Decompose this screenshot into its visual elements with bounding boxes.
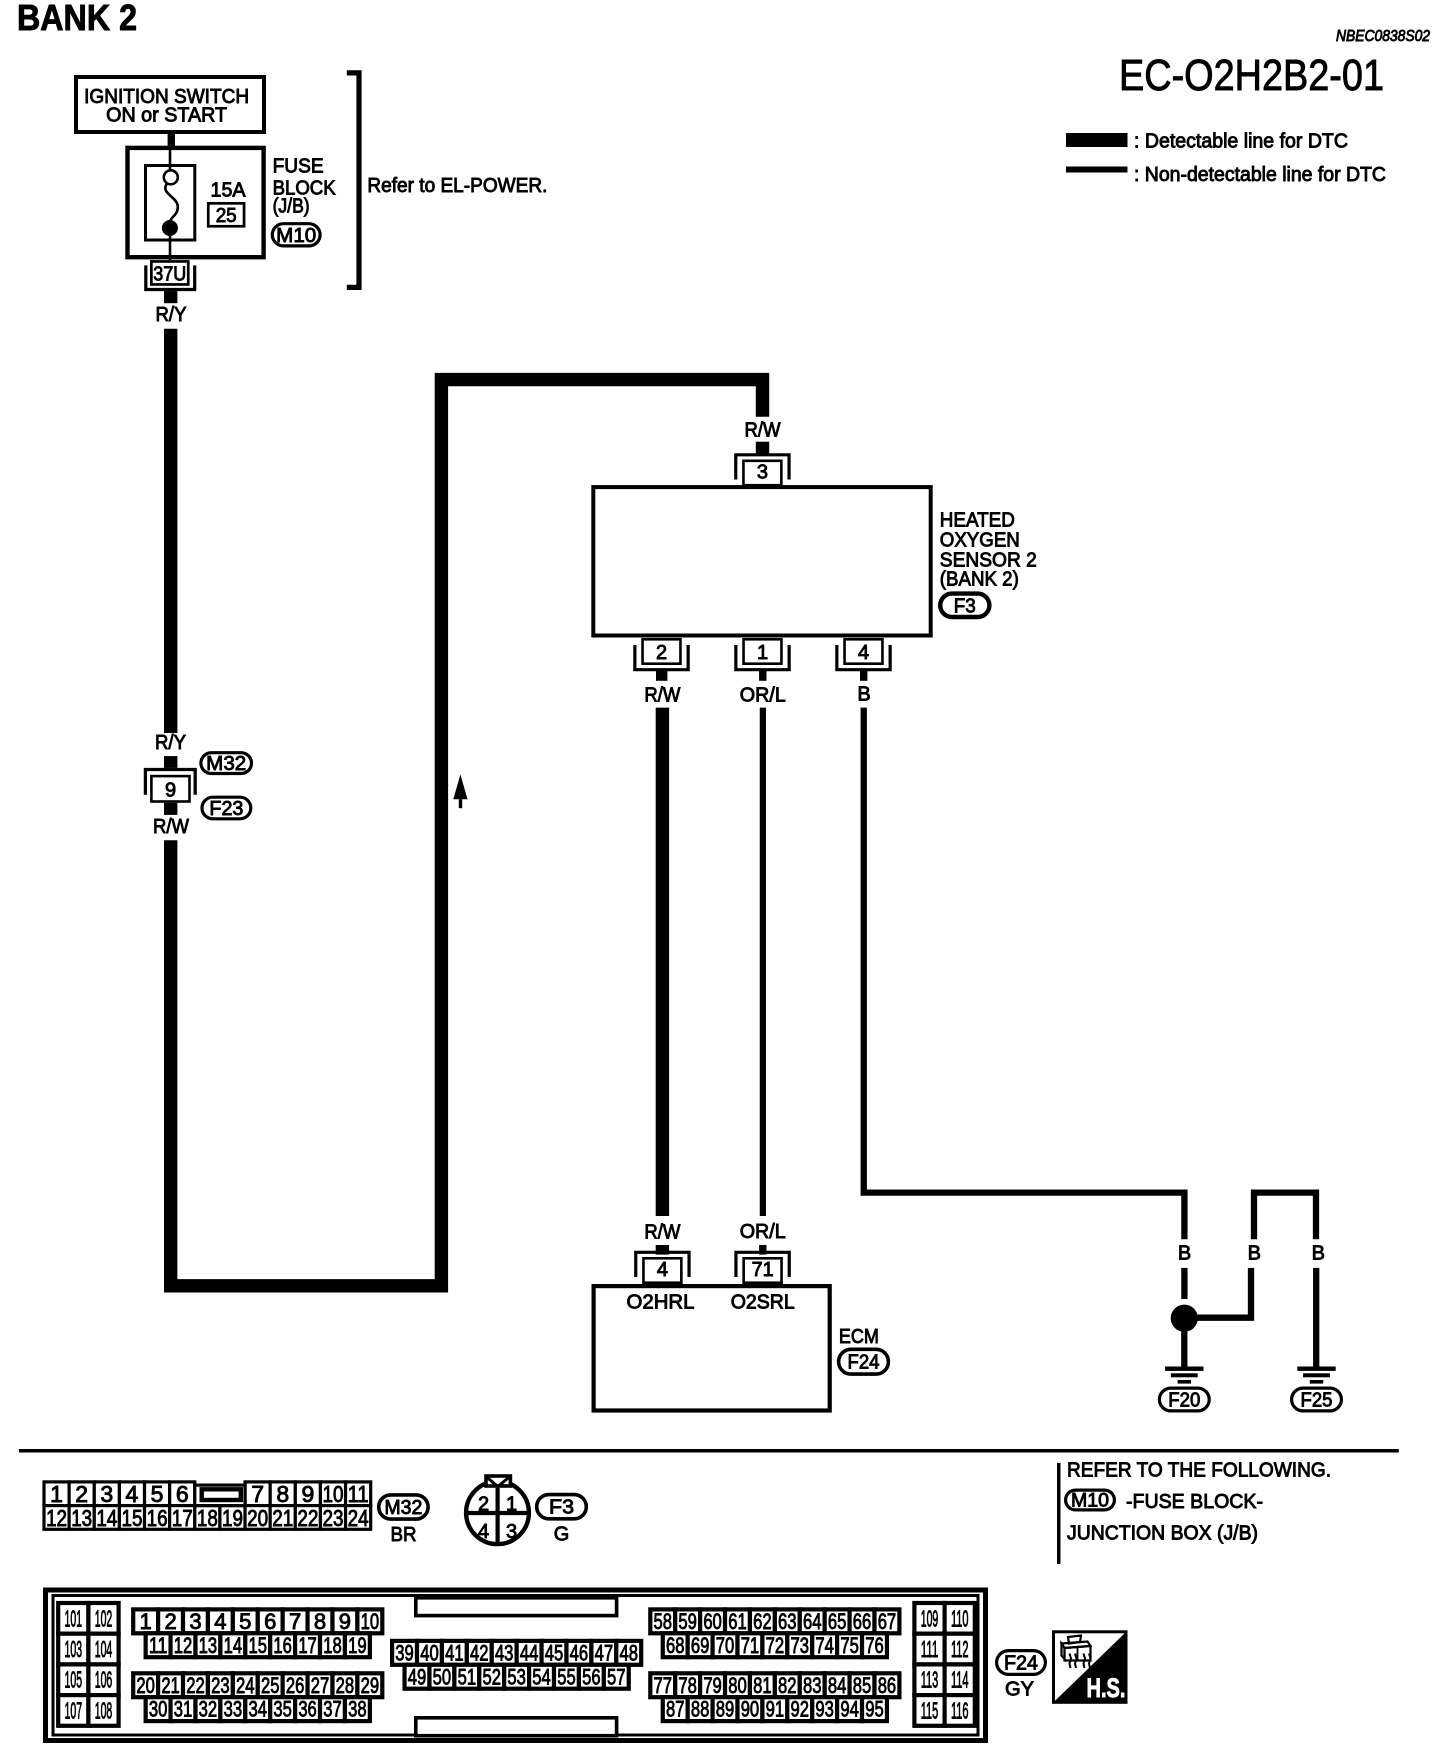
- svg-text:111: 111: [921, 1636, 939, 1662]
- svg-text:2: 2: [164, 1609, 176, 1634]
- svg-text:4: 4: [214, 1609, 226, 1634]
- svg-text:37U: 37U: [153, 263, 186, 285]
- svg-text:(J/B): (J/B): [273, 196, 310, 218]
- svg-text:3: 3: [506, 1521, 517, 1543]
- svg-text:1: 1: [140, 1609, 152, 1634]
- svg-text:93: 93: [815, 1697, 834, 1722]
- svg-text:46: 46: [570, 1640, 589, 1665]
- svg-text:ON or START: ON or START: [106, 105, 227, 127]
- svg-text:109: 109: [921, 1605, 939, 1631]
- ground symbol F20: [1165, 1367, 1203, 1371]
- svg-text:12: 12: [174, 1633, 193, 1658]
- svg-text:60: 60: [703, 1609, 722, 1634]
- ECM connector cells 1-19: [133, 1609, 158, 1633]
- ECM connector top notch: [416, 1598, 617, 1616]
- svg-text:26: 26: [286, 1673, 305, 1698]
- svg-text:6: 6: [264, 1609, 276, 1634]
- svg-text:15A: 15A: [211, 180, 247, 202]
- svg-text:108: 108: [95, 1697, 113, 1723]
- svg-text:70: 70: [716, 1633, 735, 1658]
- svg-text:69: 69: [691, 1633, 710, 1658]
- svg-text:61: 61: [728, 1609, 747, 1634]
- ECM connector cells 20-38: [133, 1673, 158, 1697]
- svg-text:4: 4: [478, 1521, 489, 1543]
- svg-text:48: 48: [619, 1640, 638, 1665]
- legend non-detectable line sample: [1066, 167, 1128, 173]
- ground symbol F25: [1297, 1367, 1335, 1371]
- svg-text:94: 94: [840, 1697, 859, 1722]
- svg-text:3: 3: [100, 1481, 113, 1507]
- svg-text:80: 80: [728, 1673, 747, 1698]
- svg-text:M32: M32: [206, 753, 246, 775]
- svg-text:75: 75: [840, 1633, 859, 1658]
- svg-text:13: 13: [71, 1505, 92, 1531]
- svg-text:1: 1: [506, 1494, 517, 1516]
- fuse number 25 box: [208, 203, 244, 226]
- svg-text:105: 105: [65, 1667, 83, 1693]
- connector view F3 round: [466, 1481, 529, 1544]
- svg-text:28: 28: [336, 1673, 355, 1698]
- H.S. harness side view logo: [1054, 1632, 1127, 1703]
- svg-text:65: 65: [828, 1609, 847, 1634]
- svg-text:56: 56: [582, 1664, 601, 1689]
- wire stub into ECM pin 4: [656, 1245, 669, 1255]
- wire stub ignition to fuse block: [168, 134, 175, 146]
- ECM box: [594, 1286, 830, 1410]
- svg-text:79: 79: [703, 1673, 722, 1698]
- ECM pin 4: [643, 1258, 681, 1282]
- svg-text:14: 14: [224, 1633, 243, 1658]
- svg-text:54: 54: [532, 1664, 551, 1689]
- ECM connector left column cells 101-108: [58, 1603, 88, 1634]
- svg-text:55: 55: [557, 1664, 576, 1689]
- svg-text:9: 9: [301, 1481, 314, 1507]
- svg-text:47: 47: [595, 1640, 614, 1665]
- svg-text:13: 13: [199, 1633, 218, 1658]
- svg-text:89: 89: [716, 1697, 735, 1722]
- svg-text:R/W: R/W: [153, 816, 189, 838]
- svg-text:7: 7: [251, 1481, 264, 1507]
- wire stub below connector 9: [164, 803, 177, 815]
- svg-text:2: 2: [656, 642, 667, 664]
- svg-text:106: 106: [95, 1667, 113, 1693]
- svg-text:1: 1: [50, 1481, 63, 1507]
- ECM pin 71: [744, 1258, 782, 1282]
- svg-text:20: 20: [136, 1673, 155, 1698]
- connector ref F24 oval: [839, 1349, 889, 1374]
- svg-text:B: B: [857, 684, 870, 706]
- svg-text:25: 25: [216, 205, 237, 227]
- svg-text:78: 78: [678, 1673, 697, 1698]
- svg-text:74: 74: [815, 1633, 834, 1658]
- sensor pin 3: [743, 461, 781, 485]
- svg-text:21: 21: [161, 1673, 180, 1698]
- svg-text:3: 3: [189, 1609, 201, 1634]
- svg-text:88: 88: [691, 1697, 710, 1722]
- fuse block M10 box: [128, 148, 264, 257]
- wire stub below sensor pin 2: [656, 670, 667, 681]
- svg-text:F25: F25: [1301, 1390, 1333, 1412]
- svg-text:4: 4: [126, 1481, 139, 1507]
- heated oxygen sensor 2 box: [593, 487, 930, 635]
- wire OR/L signal run down to ECM: [760, 708, 766, 1216]
- svg-text:19: 19: [222, 1505, 243, 1531]
- wire stub into ECM pin 71: [759, 1245, 766, 1255]
- svg-text:-FUSE BLOCK-: -FUSE BLOCK-: [1126, 1491, 1263, 1513]
- svg-text:67: 67: [878, 1609, 897, 1634]
- svg-text:REFER TO THE FOLLOWING.: REFER TO THE FOLLOWING.: [1067, 1460, 1331, 1482]
- svg-text:O2SRL: O2SRL: [731, 1292, 795, 1314]
- connector ref M10 oval: [272, 224, 320, 246]
- wire stub below 37U: [164, 291, 177, 303]
- svg-text:23: 23: [211, 1673, 230, 1698]
- svg-text:18: 18: [323, 1633, 342, 1658]
- svg-text:32: 32: [199, 1697, 218, 1722]
- svg-text:77: 77: [654, 1673, 673, 1698]
- svg-text:113: 113: [921, 1667, 939, 1693]
- svg-text:1: 1: [757, 642, 768, 664]
- svg-text:OXYGEN: OXYGEN: [940, 530, 1020, 552]
- svg-text:19: 19: [348, 1633, 367, 1658]
- wire stub below sensor pin 1: [759, 670, 766, 681]
- svg-text:9: 9: [339, 1609, 351, 1634]
- svg-text:R/Y: R/Y: [156, 304, 187, 326]
- svg-text:102: 102: [95, 1605, 113, 1631]
- wire B from label to junction: [1181, 1268, 1187, 1299]
- in-line connector 9 (M32/F23): [145, 770, 195, 795]
- ECM connector right column cells 109-116: [914, 1603, 944, 1634]
- svg-text:F20: F20: [1168, 1390, 1200, 1412]
- svg-text:90: 90: [741, 1697, 760, 1722]
- svg-text:53: 53: [507, 1664, 526, 1689]
- svg-text:84: 84: [828, 1673, 847, 1698]
- svg-text:41: 41: [445, 1640, 464, 1665]
- svg-text:17: 17: [172, 1505, 193, 1531]
- svg-text:35: 35: [273, 1697, 292, 1722]
- svg-text:87: 87: [666, 1697, 685, 1722]
- svg-text:101: 101: [65, 1605, 83, 1631]
- svg-text:66: 66: [853, 1609, 872, 1634]
- separator line above connector views: [19, 1449, 1399, 1453]
- svg-text:2: 2: [75, 1481, 88, 1507]
- ECM connector cells 58-76: [650, 1609, 675, 1633]
- svg-text:JUNCTION BOX (J/B): JUNCTION BOX (J/B): [1067, 1523, 1258, 1545]
- svg-text:22: 22: [186, 1673, 205, 1698]
- svg-text:18: 18: [197, 1505, 218, 1531]
- svg-text:EC-O2H2B2-01: EC-O2H2B2-01: [1119, 51, 1384, 100]
- svg-text:14: 14: [96, 1505, 117, 1531]
- svg-text:115: 115: [921, 1697, 939, 1723]
- svg-text:73: 73: [791, 1633, 810, 1658]
- connector ref F3 oval: [940, 594, 989, 617]
- svg-text:ECM: ECM: [839, 1326, 879, 1348]
- svg-text:21: 21: [272, 1505, 293, 1531]
- svg-text:71: 71: [741, 1633, 760, 1658]
- legend detectable line sample: [1066, 133, 1128, 147]
- sensor pin 2: [643, 639, 681, 663]
- svg-text:OR/L: OR/L: [740, 1221, 786, 1243]
- wire stub into pin 3: [756, 442, 769, 455]
- svg-text:38: 38: [348, 1697, 367, 1722]
- svg-text:H.S.: H.S.: [1087, 1673, 1126, 1703]
- svg-text:62: 62: [753, 1609, 772, 1634]
- svg-text:8: 8: [276, 1481, 289, 1507]
- svg-text:B: B: [1178, 1243, 1191, 1265]
- F3 cross dividers: [467, 1511, 529, 1515]
- connector view M32 24-pin grid: [44, 1482, 69, 1506]
- svg-text:103: 103: [65, 1636, 83, 1662]
- svg-text:R/W: R/W: [644, 685, 680, 707]
- wire R/Y upper segment: [164, 329, 177, 733]
- svg-text:16: 16: [273, 1633, 292, 1658]
- wire R/W main thick run: left down, bottom right, up, top right: [171, 380, 763, 1286]
- refer-to vertical rule: [1057, 1463, 1061, 1564]
- svg-text:15: 15: [249, 1633, 268, 1658]
- svg-text:72: 72: [766, 1633, 785, 1658]
- svg-text:51: 51: [458, 1664, 477, 1689]
- wire middle leg up and over to right leg: [1254, 1193, 1316, 1240]
- svg-text:OR/L: OR/L: [740, 685, 786, 707]
- svg-text:M10: M10: [276, 225, 316, 247]
- svg-text:37: 37: [323, 1697, 342, 1722]
- svg-text:9: 9: [165, 780, 176, 802]
- svg-text:R/W: R/W: [745, 420, 781, 442]
- svg-text:76: 76: [865, 1633, 884, 1658]
- H.S. logo connector icon: [1068, 1636, 1081, 1644]
- direction arrow on thick wire: [453, 775, 467, 800]
- svg-text:FUSE: FUSE: [273, 156, 324, 178]
- svg-text:6: 6: [176, 1481, 189, 1507]
- svg-text:92: 92: [791, 1697, 810, 1722]
- svg-text:5: 5: [239, 1609, 251, 1634]
- svg-text:23: 23: [322, 1505, 343, 1531]
- svg-text:G: G: [554, 1524, 570, 1546]
- svg-text:110: 110: [951, 1605, 969, 1631]
- svg-text:7: 7: [289, 1609, 301, 1634]
- connector 37U below fuse block: [151, 261, 188, 284]
- svg-text:12: 12: [46, 1505, 67, 1531]
- svg-text:R/W: R/W: [644, 1222, 680, 1244]
- connector ref M32 oval: [201, 753, 252, 774]
- svg-text:F24: F24: [848, 1352, 880, 1374]
- svg-text:116: 116: [951, 1697, 969, 1723]
- svg-text:57: 57: [607, 1664, 626, 1689]
- svg-text:58: 58: [654, 1609, 673, 1634]
- svg-text:BANK 2: BANK 2: [17, 0, 137, 38]
- svg-text:Refer to EL-POWER.: Refer to EL-POWER.: [367, 175, 547, 197]
- svg-text:10: 10: [361, 1609, 380, 1634]
- svg-text:39: 39: [395, 1640, 414, 1665]
- svg-text:: Detectable line for DTC: : Detectable line for DTC: [1134, 131, 1348, 153]
- sensor pin 4: [845, 639, 883, 663]
- svg-text:GY: GY: [1005, 1679, 1034, 1701]
- svg-text:91: 91: [766, 1697, 785, 1722]
- ECM connector bottom notch: [416, 1718, 617, 1736]
- svg-text:71: 71: [752, 1259, 774, 1281]
- svg-text:27: 27: [311, 1673, 330, 1698]
- svg-text:36: 36: [298, 1697, 317, 1722]
- wire stub into connector 9: [164, 756, 177, 768]
- wire right leg down to F25 ground: [1313, 1268, 1319, 1367]
- svg-text:4: 4: [858, 642, 869, 664]
- svg-text:42: 42: [470, 1640, 489, 1665]
- svg-text:R/Y: R/Y: [155, 732, 186, 754]
- svg-text:8: 8: [314, 1609, 326, 1634]
- svg-text:82: 82: [778, 1673, 797, 1698]
- svg-text:2: 2: [478, 1494, 489, 1516]
- ECM connector cells 77-95: [650, 1673, 675, 1697]
- wire bridge from junction to middle leg: [1196, 1268, 1251, 1318]
- sensor pin 1: [744, 639, 782, 663]
- svg-text:HEATED: HEATED: [940, 510, 1015, 532]
- svg-text:F24: F24: [1004, 1653, 1038, 1675]
- junction dot: [1171, 1305, 1198, 1332]
- svg-text:F3: F3: [549, 1497, 574, 1519]
- svg-text:15: 15: [121, 1505, 142, 1531]
- F3 keyway: [486, 1476, 510, 1486]
- svg-text:43: 43: [495, 1640, 514, 1665]
- svg-text:20: 20: [247, 1505, 268, 1531]
- svg-text:29: 29: [361, 1673, 380, 1698]
- ECM connector cells 39-57: [392, 1641, 417, 1665]
- svg-text:B: B: [1248, 1243, 1261, 1265]
- svg-text:31: 31: [174, 1697, 193, 1722]
- svg-text:25: 25: [261, 1673, 280, 1698]
- M32 keyway slot bar: [202, 1489, 241, 1500]
- wire junction to F20 ground: [1181, 1331, 1187, 1367]
- svg-text:45: 45: [545, 1640, 564, 1665]
- svg-text:44: 44: [520, 1640, 539, 1665]
- svg-text:5: 5: [151, 1481, 164, 1507]
- svg-text:52: 52: [482, 1664, 501, 1689]
- svg-text:16: 16: [147, 1505, 168, 1531]
- svg-text:95: 95: [865, 1697, 884, 1722]
- svg-text:49: 49: [408, 1664, 427, 1689]
- svg-text:11: 11: [348, 1481, 369, 1507]
- svg-text:104: 104: [95, 1636, 113, 1662]
- svg-text:22: 22: [297, 1505, 318, 1531]
- connector ref F3 oval at view: [537, 1495, 587, 1519]
- svg-text:33: 33: [224, 1697, 243, 1722]
- svg-text:(BANK 2): (BANK 2): [940, 569, 1019, 591]
- svg-text:M10: M10: [1071, 1491, 1109, 1512]
- connector ref F24 oval at view: [997, 1651, 1046, 1675]
- svg-text:24: 24: [348, 1505, 369, 1531]
- wire stub below sensor pin 4: [860, 670, 867, 681]
- svg-text:10: 10: [322, 1481, 343, 1507]
- wire B sensor ground run right then down: [864, 708, 1185, 1240]
- svg-text:85: 85: [853, 1673, 872, 1698]
- svg-text:: Non-detectable line for DTC: : Non-detectable line for DTC: [1134, 164, 1386, 186]
- svg-text:3: 3: [757, 461, 768, 483]
- svg-text:81: 81: [753, 1673, 772, 1698]
- ECM connector view outer frame: [46, 1590, 986, 1741]
- svg-text:112: 112: [951, 1636, 969, 1662]
- svg-text:114: 114: [951, 1667, 969, 1693]
- svg-text:59: 59: [678, 1609, 697, 1634]
- ignition switch box: [76, 77, 264, 132]
- svg-text:11: 11: [149, 1633, 168, 1658]
- svg-text:F3: F3: [954, 595, 976, 617]
- svg-text:4: 4: [657, 1259, 668, 1281]
- wire R/W heater ground run down to ECM: [656, 708, 669, 1216]
- fuse 15A symbol: [146, 166, 195, 241]
- ECM connector view inner frame: [53, 1596, 978, 1736]
- bracket for fuse block note: [347, 73, 359, 288]
- connector ref F23 oval: [202, 797, 251, 819]
- svg-text:63: 63: [778, 1609, 797, 1634]
- svg-text:40: 40: [420, 1640, 439, 1665]
- svg-text:NBEC0838S02: NBEC0838S02: [1336, 28, 1430, 45]
- svg-text:50: 50: [433, 1664, 452, 1689]
- svg-text:107: 107: [65, 1697, 83, 1723]
- svg-text:68: 68: [666, 1633, 685, 1658]
- svg-text:O2HRL: O2HRL: [627, 1292, 695, 1314]
- connector ref M10 oval in note: [1066, 1490, 1115, 1510]
- svg-text:M32: M32: [384, 1497, 422, 1519]
- svg-text:64: 64: [803, 1609, 822, 1634]
- svg-text:24: 24: [236, 1673, 255, 1698]
- connector ref M32 oval at view: [379, 1495, 428, 1519]
- svg-text:30: 30: [149, 1697, 168, 1722]
- svg-text:83: 83: [803, 1673, 822, 1698]
- svg-text:BR: BR: [391, 1524, 417, 1546]
- svg-text:34: 34: [249, 1697, 268, 1722]
- svg-text:F23: F23: [209, 798, 243, 820]
- M32 keyway slot section: [195, 1485, 245, 1506]
- svg-text:B: B: [1312, 1243, 1325, 1265]
- svg-text:86: 86: [878, 1673, 897, 1698]
- svg-text:17: 17: [298, 1633, 317, 1658]
